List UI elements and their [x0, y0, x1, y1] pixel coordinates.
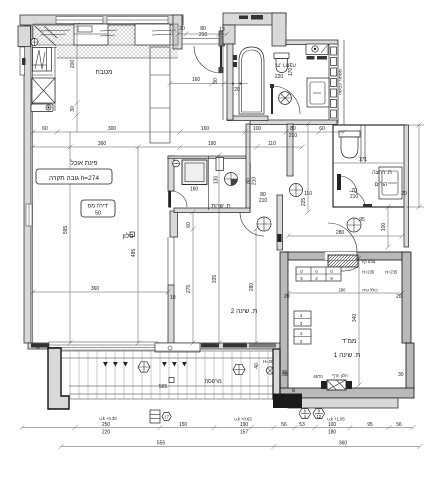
svg-text:180: 180	[328, 430, 337, 436]
entry door jamb right	[219, 31, 225, 46]
mamad right wall upper	[402, 252, 411, 343]
dim vertical kitchen 200/30	[76, 25, 78, 132]
sliding door panels bottom	[31, 344, 49, 348]
dim vertical bedroom2 335	[218, 155, 220, 343]
svg-text:53: 53	[299, 422, 305, 428]
entry door arc	[194, 46, 221, 73]
wall service top	[168, 156, 246, 159]
svg-text:ת. רחצה: ת. רחצה	[276, 62, 296, 68]
dim vertical bedroom2 280	[255, 229, 257, 343]
small circle right	[266, 367, 273, 374]
svg-text:110: 110	[304, 191, 312, 197]
svg-text:595: 595	[63, 226, 69, 235]
bath door arc	[272, 86, 300, 114]
balcony parapet L	[48, 348, 69, 409]
right outer dim line	[418, 125, 420, 207]
svg-text:160: 160	[192, 77, 201, 83]
parents door leaf	[337, 174, 341, 190]
svg-text:ממ"ד: ממ"ד	[342, 338, 357, 345]
closet boxes pair B	[294, 329, 311, 344]
wall parents-bath ring	[333, 125, 406, 207]
svg-text:מסתור כביסה: מסתור כביסה	[338, 69, 343, 95]
closet boxes pair A	[294, 311, 311, 326]
shaft niche dashes	[239, 16, 248, 20]
svg-text:300: 300	[108, 126, 117, 132]
dim entry 160 y84	[170, 83, 248, 85]
svg-text:10: 10	[170, 295, 176, 301]
svg-text:90: 90	[291, 387, 296, 392]
svg-text:60: 60	[42, 126, 48, 132]
svg-text:20: 20	[396, 294, 402, 300]
toilet bath	[274, 53, 289, 59]
svg-text:ת. שרות: ת. שרות	[211, 204, 230, 210]
dim entry y37	[178, 33, 227, 35]
parents toilet	[339, 131, 360, 137]
svg-text:130: 130	[214, 176, 220, 185]
pantry column	[150, 47, 170, 143]
mamad top wall	[284, 252, 407, 260]
service partition line	[208, 156, 210, 210]
svg-text:225: 225	[301, 198, 307, 207]
svg-text:56: 56	[281, 422, 287, 428]
small square symbol	[169, 378, 174, 383]
mamad right wall lower	[406, 343, 414, 390]
floor drain circle	[279, 92, 292, 105]
svg-text:60: 60	[319, 126, 325, 132]
bottom box+hex left	[150, 410, 160, 423]
dim vertical corridor 225	[307, 124, 309, 212]
svg-text:210: 210	[252, 177, 258, 186]
svg-text:360: 360	[91, 286, 100, 292]
dim hallway 280	[288, 235, 402, 237]
svg-text:555: 555	[157, 441, 166, 447]
wall left	[24, 26, 31, 343]
corridor door arc bedroom2	[240, 212, 264, 236]
bathtub	[239, 47, 264, 114]
svg-text:4570: 4570	[313, 374, 323, 379]
svg-text:פינת אוכל: פינת אוכל	[71, 159, 98, 167]
service drain small	[173, 160, 180, 167]
wall top band kitchen	[20, 15, 183, 25]
wall bedroom2 right	[277, 195, 283, 250]
svg-text:95: 95	[359, 217, 365, 223]
dim vertical living 485	[137, 147, 139, 343]
svg-text:מטבח: מטבח	[96, 69, 113, 76]
svg-text:150: 150	[179, 422, 188, 428]
svg-text:250: 250	[102, 422, 111, 428]
mamad door swing arc	[328, 223, 357, 252]
svg-text:100: 100	[328, 422, 337, 428]
svg-text:H=30: H=30	[263, 359, 274, 364]
entry threshold	[182, 38, 219, 40]
svg-text:157: 157	[240, 430, 249, 436]
svg-text:340: 340	[352, 314, 358, 323]
window left wall lower	[26, 204, 32, 226]
bottom hexagons mamad	[299, 409, 311, 419]
dim vertical hallway 100	[387, 207, 389, 247]
svg-text:כולל טיח: כולל טיח	[362, 288, 377, 293]
dim vertical living 595	[69, 132, 71, 343]
window in top band	[56, 17, 103, 24]
svg-text:56: 56	[396, 422, 402, 428]
mamad left wall	[280, 252, 288, 398]
service bath shower	[182, 160, 207, 185]
svg-text:220: 220	[102, 430, 111, 436]
svg-text:גובה תקרה h=274: גובה תקרה h=274	[49, 175, 99, 182]
dim living 360 y292	[33, 291, 168, 293]
mamad heavy door leaf	[328, 255, 358, 267]
svg-text:80: 80	[290, 126, 296, 132]
svg-text:171: 171	[359, 157, 368, 163]
svg-text:280: 280	[339, 288, 347, 293]
svg-text:ת. שינה 2: ת. שינה 2	[231, 308, 258, 315]
wall right of parents bath gray	[404, 125, 409, 247]
wall service bottom	[174, 208, 250, 213]
balcony slab lines	[61, 350, 276, 352]
svg-text:485: 485	[131, 249, 137, 258]
svg-text:110: 110	[268, 141, 276, 147]
svg-text:190: 190	[208, 141, 217, 147]
hexagon light 1	[138, 362, 150, 372]
svg-text:360: 360	[98, 141, 107, 147]
svg-text:280: 280	[336, 230, 345, 236]
window left wall upper	[20, 47, 25, 75]
corridor drain 1	[290, 184, 303, 197]
corridor drain 2	[257, 217, 271, 231]
svg-text:20: 20	[401, 191, 407, 197]
fridge X box	[32, 78, 55, 103]
wall shaft U top	[223, 13, 286, 25]
service door leaf+arc	[168, 191, 171, 208]
kitchen counter top hatched	[33, 24, 178, 45]
bottom row2 chain	[61, 446, 420, 448]
hexagon light 2	[233, 364, 245, 374]
wall left outer bump	[18, 26, 31, 47]
svg-text:u.k +1.05: u.k +1.05	[327, 417, 345, 422]
corner diagonal	[35, 26, 57, 46]
mamad window	[327, 380, 346, 390]
svg-text:13: 13	[219, 27, 225, 33]
service toilet tank	[216, 158, 224, 171]
svg-text:הורים: הורים	[375, 182, 388, 188]
cooktop streak lines	[40, 30, 176, 36]
svg-text:20: 20	[179, 26, 185, 32]
svg-text:275: 275	[186, 285, 192, 294]
svg-text:210: 210	[199, 32, 208, 38]
mamad outer skin bottom	[288, 398, 398, 408]
svg-text:20: 20	[234, 87, 240, 93]
radiator marks on bath wall	[233, 55, 238, 60]
circle on bottom band	[36, 344, 40, 348]
svg-text:40: 40	[254, 363, 260, 369]
corridor face line	[222, 44, 224, 120]
svg-text:u.k +0.30: u.k +0.30	[99, 416, 117, 421]
mamad bottom wall	[280, 388, 414, 398]
svg-text:60: 60	[186, 222, 192, 228]
svg-text:160: 160	[190, 187, 199, 193]
sink bath	[306, 44, 328, 55]
svg-text:20: 20	[284, 294, 290, 300]
svg-text:100: 100	[253, 126, 262, 132]
corridor niche wall	[287, 124, 293, 176]
svg-text:190: 190	[240, 422, 249, 428]
svg-text:200: 200	[70, 60, 76, 69]
svg-text:280: 280	[249, 283, 255, 292]
svg-text:30: 30	[70, 106, 76, 112]
svg-text:H=235: H=235	[385, 270, 398, 275]
svg-text:ת. רחצה: ת. רחצה	[372, 170, 392, 176]
svg-text:565: 565	[159, 384, 168, 390]
svg-text:95: 95	[367, 422, 373, 428]
wall right upper	[343, 40, 345, 125]
cabinet rects in counter	[74, 24, 108, 45]
svg-text:30: 30	[398, 372, 404, 378]
wall bath top thin	[286, 40, 338, 45]
svg-text:מרפסת: מרפסת	[204, 379, 221, 385]
svg-text:ת. שינה 1: ת. שינה 1	[334, 352, 361, 359]
dim mamad 340	[358, 258, 360, 385]
balcony grid verticals	[70, 351, 268, 399]
dim chain y132	[33, 131, 344, 133]
shower cabinet bath	[307, 78, 329, 107]
service door dim line	[250, 163, 252, 208]
svg-text:סלון: סלון	[122, 232, 133, 240]
wall corridor top	[250, 120, 337, 125]
box ceiling height	[36, 169, 112, 184]
bottom row1 chain	[22, 427, 413, 429]
svg-text:160: 160	[201, 126, 210, 132]
kitchen tall cabinet left	[33, 48, 52, 72]
service drain circle	[225, 173, 238, 186]
svg-text:H=235: H=235	[362, 270, 375, 275]
duct shaft right with louvers	[329, 44, 338, 123]
svg-text:12: 12	[316, 414, 321, 419]
parents shower	[379, 167, 402, 199]
svg-text:30: 30	[282, 370, 288, 376]
svg-text:צבע קיר: צבע קיר	[361, 259, 376, 264]
box apartment no	[81, 200, 115, 217]
balcony corner wall right (mamad side)	[273, 349, 280, 399]
dim chain y147	[33, 146, 302, 148]
svg-text:220: 220	[275, 74, 284, 80]
dim 171 line	[333, 162, 404, 164]
parents bath partition	[360, 125, 362, 163]
svg-text:360: 360	[339, 441, 348, 447]
drain arrows	[103, 362, 128, 367]
svg-text:210: 210	[259, 198, 268, 204]
shaft U left leg	[223, 25, 235, 44]
svg-text:210: 210	[350, 194, 359, 200]
svg-text:u.k +0.63: u.k +0.63	[234, 417, 252, 422]
wall service right	[246, 124, 250, 212]
parents door bottom	[349, 191, 365, 207]
wall service bath left / bedroom2 left	[168, 156, 174, 191]
svg-text:חלון הדף: חלון הדף	[332, 373, 348, 378]
gas tap circle	[31, 38, 38, 45]
corridor drain 3	[347, 218, 361, 232]
svg-text:50: 50	[213, 78, 219, 84]
svg-text:50: 50	[95, 211, 101, 217]
wall bath left	[227, 44, 233, 120]
svg-text:דירה מס': דירה מס'	[88, 204, 109, 210]
wall entry pier	[173, 15, 182, 49]
svg-text:210: 210	[289, 133, 298, 139]
furniture square living	[130, 232, 135, 237]
shaft U right leg	[272, 13, 286, 46]
svg-text:170: 170	[288, 68, 294, 77]
bench with circle	[31, 104, 53, 112]
svg-text:17: 17	[164, 415, 169, 420]
wall bottom living (balcony front)	[28, 343, 280, 349]
svg-text:335: 335	[212, 275, 218, 284]
closet grid bedroom1	[296, 267, 341, 281]
wall bath/corridor divider bottom of bath	[227, 116, 268, 121]
bath door leaf	[271, 86, 273, 114]
dim vertical bedroom2 50/275	[192, 212, 194, 343]
svg-text:100: 100	[381, 223, 387, 232]
